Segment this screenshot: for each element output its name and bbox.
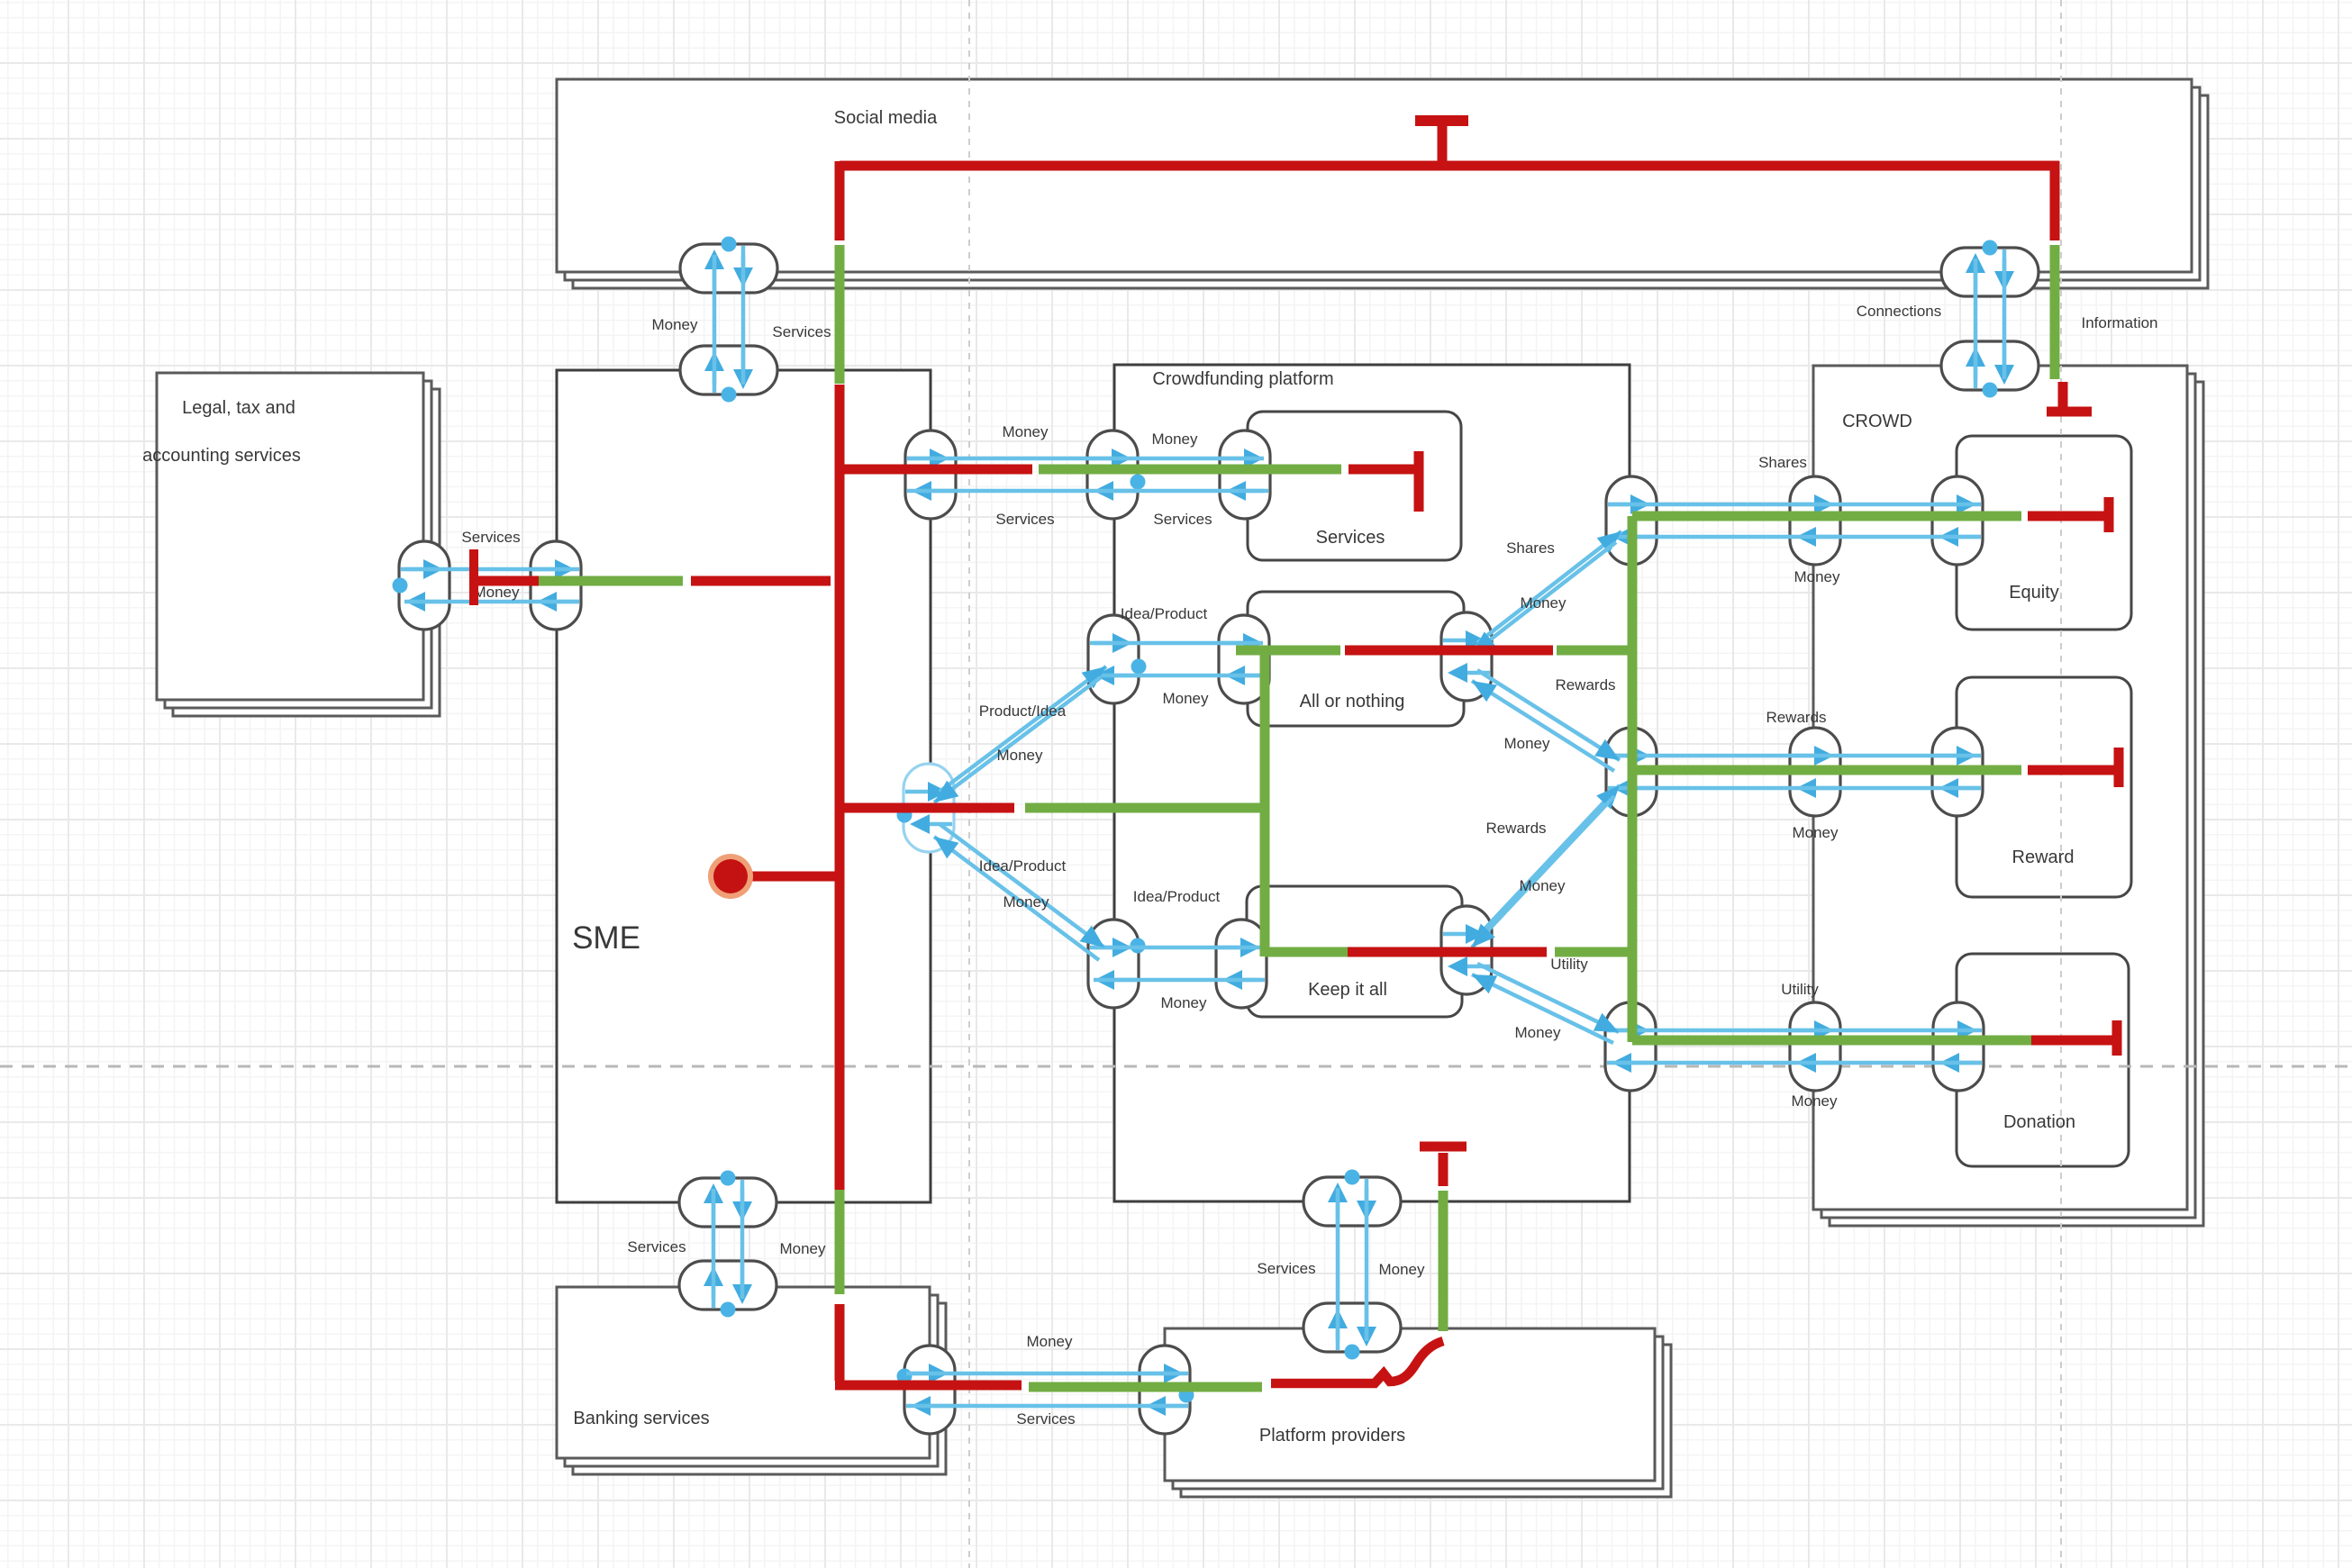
red dot halo bbox=[708, 854, 753, 899]
utility row top flow line bbox=[1607, 1029, 1982, 1033]
utility diag arrowhead bbox=[1594, 1013, 1619, 1032]
svg-text:Product/Idea: Product/Idea bbox=[979, 702, 1067, 720]
svg-text:Money: Money bbox=[473, 584, 520, 601]
red hook to platform vertical bbox=[1271, 1341, 1443, 1383]
Social media container (stacked) bbox=[557, 79, 2208, 288]
svg-text:Money: Money bbox=[1519, 877, 1566, 894]
green flow banking to platform green bbox=[1029, 1382, 1262, 1392]
red flow corner to banking valve bbox=[835, 1381, 1022, 1391]
red flow SME vertical main bbox=[835, 385, 845, 1190]
banking valve port dot bbox=[721, 1302, 736, 1318]
svg-text:Money: Money bbox=[1162, 690, 1209, 707]
services row1 bottom flow line bbox=[907, 489, 1264, 494]
shares valve bbox=[1606, 476, 1657, 565]
svg-text:Platform providers: Platform providers bbox=[1259, 1426, 1405, 1446]
services box valve bbox=[1220, 431, 1270, 519]
svg-text:Information: Information bbox=[2081, 314, 2157, 331]
SME container bbox=[557, 370, 931, 1202]
green flow utility row green bbox=[1632, 1036, 2031, 1046]
svg-text:Money: Money bbox=[1791, 1092, 1838, 1110]
green flow vertical green 2 bbox=[1260, 646, 1270, 956]
red flow information red stub bbox=[2058, 382, 2068, 407]
All or nothing rounded box bbox=[1248, 592, 1464, 726]
green flow row1 money green bbox=[1039, 465, 1341, 475]
svg-text:Equity: Equity bbox=[2009, 583, 2059, 603]
Donation rounded box bbox=[1957, 954, 2129, 1166]
svg-text:Shares: Shares bbox=[1506, 539, 1555, 557]
Crowdfunding platform container bbox=[1114, 365, 1630, 1201]
svg-text:SME: SME bbox=[572, 920, 640, 956]
svg-text:Rewards: Rewards bbox=[1766, 709, 1826, 726]
svg-text:Money: Money bbox=[651, 316, 698, 333]
SME mid valve port dot bbox=[897, 808, 913, 823]
social media bottom valve bbox=[680, 244, 777, 293]
cf bottom valve port dot bbox=[1345, 1170, 1360, 1185]
rewards diag from aon flow line bbox=[1477, 670, 1620, 760]
platform left valve port dot bbox=[1179, 1388, 1194, 1403]
money utility row flow line bbox=[1607, 1061, 1982, 1065]
svg-text:Donation: Donation bbox=[2003, 1112, 2075, 1132]
shares diag arrowhead bbox=[1597, 531, 1621, 554]
green flow row2 green left bbox=[1236, 646, 1340, 656]
green flow vertical green 1 bbox=[1628, 516, 1638, 1042]
svg-text:Services: Services bbox=[461, 529, 520, 546]
platform providers top valve bbox=[1303, 1303, 1401, 1352]
rewards valve bbox=[1606, 728, 1657, 816]
CROWD top valve bbox=[1941, 341, 2039, 390]
svg-text:CROWD: CROWD bbox=[1842, 412, 1912, 431]
svg-text:Rewards: Rewards bbox=[1485, 820, 1546, 837]
crowdfunding left row3 valve bbox=[1088, 920, 1139, 1008]
dashed vertical guide right bbox=[2060, 0, 2062, 1568]
red flow row2 red bbox=[1345, 646, 1553, 656]
money utility diag return flow line bbox=[1472, 974, 1613, 1043]
red flow shares row red bbox=[2028, 512, 2104, 521]
shares diag flow line bbox=[1477, 531, 1621, 643]
svg-text:Keep it all: Keep it all bbox=[1308, 980, 1387, 1000]
idea-product row3 flow line bbox=[1094, 946, 1260, 950]
svg-text:accounting services: accounting services bbox=[142, 446, 301, 466]
red flow row2.5 from SME bbox=[843, 803, 1014, 813]
legal right valve bbox=[399, 541, 450, 630]
money diag down return flow line bbox=[934, 837, 1099, 960]
crowdfunding left row1 valve bbox=[1087, 431, 1138, 519]
rewards diag from keep arrowhead bbox=[1596, 785, 1620, 810]
Banking services container (stacked) bbox=[557, 1287, 946, 1474]
money keep diag return flow line bbox=[1472, 796, 1614, 947]
donation box valve bbox=[1933, 1002, 1984, 1091]
rewards row top flow line bbox=[1608, 754, 1981, 758]
red flow red dot stub bbox=[751, 872, 844, 882]
green flow platform vertical green bbox=[1439, 1191, 1448, 1331]
money shares row flow line bbox=[1608, 535, 1981, 539]
money diag up return arrowhead bbox=[934, 781, 958, 802]
svg-text:Services: Services bbox=[1257, 1260, 1315, 1277]
SME left valve bbox=[531, 541, 581, 630]
red flow right vertical upper bbox=[2050, 161, 2060, 240]
money shares diag return arrowhead bbox=[1472, 631, 1496, 654]
red flow row1 from SME bbox=[840, 465, 1032, 475]
red flow rewards row red bbox=[2028, 766, 2114, 775]
all or nothing left valve bbox=[1219, 615, 1269, 703]
svg-text:All or nothing: All or nothing bbox=[1300, 692, 1405, 711]
money legal row flow line bbox=[404, 600, 579, 604]
money keep diag return arrowhead bbox=[1472, 924, 1495, 948]
green flow rewards row green bbox=[1632, 766, 2021, 775]
information pair down flow line bbox=[2002, 258, 2007, 379]
cf row1 valve port dot bbox=[1131, 475, 1146, 490]
svg-text:Services: Services bbox=[1316, 528, 1385, 548]
svg-text:Idea/Product: Idea/Product bbox=[1121, 605, 1208, 622]
red flow platform vertical cap bbox=[1420, 1142, 1467, 1152]
product-idea diag up arrowhead bbox=[1082, 666, 1106, 688]
cf row2 valve port dot bbox=[1131, 659, 1147, 675]
money diag down return arrowhead bbox=[934, 837, 958, 858]
utility valve bbox=[1605, 1002, 1656, 1091]
keep it all right valve bbox=[1441, 906, 1492, 994]
svg-text:Money: Money bbox=[1026, 1333, 1073, 1350]
money shares diag return flow line bbox=[1472, 542, 1616, 654]
svg-text:Money: Money bbox=[1002, 423, 1049, 440]
red flow row3 red bbox=[1348, 947, 1547, 957]
rewards diag from keep flow line bbox=[1477, 785, 1620, 937]
svg-text:Money: Money bbox=[1794, 568, 1840, 585]
svg-text:Money: Money bbox=[1151, 431, 1198, 448]
SME top valve port dot bbox=[722, 387, 737, 403]
red flow SME vertical lower bbox=[835, 1304, 845, 1381]
keep it all left valve bbox=[1216, 920, 1267, 1008]
green flow row3 green right bbox=[1555, 947, 1633, 957]
svg-text:Services: Services bbox=[627, 1238, 686, 1255]
SME top valve bbox=[680, 346, 777, 394]
idea-product diag down flow line bbox=[940, 824, 1104, 947]
red flow top T-bar stub bbox=[1438, 121, 1448, 166]
svg-text:Money: Money bbox=[1520, 594, 1566, 612]
svg-text:Money: Money bbox=[1003, 893, 1049, 911]
red flow row1 end cap bbox=[1414, 451, 1424, 512]
CROWD rewards valve bbox=[1790, 728, 1840, 816]
money row3 flow line bbox=[1094, 978, 1260, 983]
svg-text:Money: Money bbox=[1514, 1024, 1561, 1041]
idea-product row2 flow line bbox=[1094, 641, 1263, 646]
social media valve port dot bbox=[722, 237, 737, 252]
red flow left vertical upper bbox=[835, 161, 845, 240]
money utility diag return arrowhead bbox=[1472, 974, 1497, 993]
services social pair down flow line bbox=[741, 255, 746, 385]
money cf-pp pair flow line bbox=[1365, 1188, 1369, 1341]
reward box valve bbox=[1932, 728, 1983, 816]
red flow legal row red right bbox=[691, 576, 831, 586]
svg-text:Idea/Product: Idea/Product bbox=[1133, 888, 1221, 905]
banking top valve bbox=[679, 1261, 776, 1310]
connections valve port dot bbox=[1983, 240, 1998, 256]
red flow shares row cap bbox=[2104, 497, 2114, 532]
svg-text:Services: Services bbox=[1016, 1410, 1075, 1428]
svg-text:Services: Services bbox=[995, 511, 1054, 528]
green flow legal row green bbox=[539, 576, 683, 586]
SME right row1 valve bbox=[905, 431, 956, 519]
svg-text:Utility: Utility bbox=[1550, 956, 1588, 973]
red flow legal row cap bbox=[469, 549, 478, 605]
Platform providers container (stacked) bbox=[1165, 1328, 1671, 1497]
money rewards diag return flow line bbox=[1472, 681, 1614, 771]
svg-text:Social media: Social media bbox=[834, 108, 938, 128]
red flow utility row red bbox=[2031, 1036, 2112, 1046]
Keep it all rounded box bbox=[1247, 886, 1462, 1017]
social media connections valve bbox=[1941, 248, 2039, 296]
red flow rewards row cap bbox=[2114, 748, 2124, 787]
SME bottom valve bbox=[679, 1178, 776, 1227]
svg-text:Money: Money bbox=[1160, 994, 1207, 1011]
svg-text:Shares: Shares bbox=[1758, 454, 1807, 471]
banking right valve bbox=[904, 1346, 955, 1434]
Reward rounded box bbox=[1957, 677, 2131, 897]
Services rounded box bbox=[1248, 412, 1461, 560]
services cf-pp pair flow line bbox=[1336, 1188, 1340, 1341]
cf row3 valve port dot bbox=[1131, 938, 1146, 954]
green flow SME bottom vertical bbox=[835, 1190, 845, 1294]
svg-text:Money: Money bbox=[1378, 1261, 1425, 1278]
crowdfunding left row2 valve bbox=[1088, 615, 1139, 703]
money row1 top flow line bbox=[907, 457, 1264, 461]
svg-text:Services: Services bbox=[772, 323, 831, 340]
equity box valve bbox=[1932, 476, 1983, 565]
red flow social media top horizontal bbox=[840, 161, 2059, 171]
svg-text:Legal, tax and: Legal, tax and bbox=[182, 398, 295, 418]
svg-text:Money: Money bbox=[1792, 824, 1839, 841]
red flow legal row red left bbox=[478, 576, 539, 586]
money diag up return flow line bbox=[934, 677, 1101, 802]
Equity rounded box bbox=[1957, 436, 2131, 630]
banking right valve port dot bbox=[897, 1369, 913, 1384]
money sme-bank pair flow line bbox=[740, 1189, 745, 1299]
red flow row1 into services bbox=[1349, 465, 1414, 475]
money row2 flow line bbox=[1094, 674, 1263, 678]
CROWD container (stacked) bbox=[1813, 366, 2203, 1226]
red flow platform vertical red bbox=[1439, 1153, 1448, 1186]
svg-text:Connections: Connections bbox=[1857, 303, 1942, 320]
svg-text:Banking services: Banking services bbox=[573, 1409, 709, 1428]
svg-text:Money: Money bbox=[779, 1240, 826, 1257]
svg-text:Utility: Utility bbox=[1781, 981, 1819, 998]
idea-product diag down arrowhead bbox=[1080, 926, 1104, 947]
services legal row flow line bbox=[404, 567, 579, 572]
red dot bbox=[713, 859, 748, 893]
Legal tax accounting services container (stacked) bbox=[157, 373, 440, 716]
SME right row2 (selected) valve bbox=[904, 764, 954, 852]
product-idea diag up flow line bbox=[940, 666, 1106, 792]
money social pair up flow line bbox=[713, 255, 717, 385]
SME bottom valve port dot bbox=[721, 1171, 736, 1186]
shares row top flow line bbox=[1608, 503, 1981, 507]
CROWD top valve port dot bbox=[1983, 383, 1998, 398]
svg-text:Services: Services bbox=[1153, 511, 1212, 528]
services bottom row flow line bbox=[906, 1404, 1188, 1409]
green flow row2 green right bbox=[1557, 646, 1633, 656]
platform providers left valve bbox=[1140, 1346, 1190, 1434]
utility diag flow line bbox=[1477, 964, 1619, 1032]
svg-text:Idea/Product: Idea/Product bbox=[979, 857, 1067, 875]
connections pair up flow line bbox=[1974, 258, 1978, 379]
red flow top T-bar cap bbox=[1415, 115, 1468, 126]
svg-text:Rewards: Rewards bbox=[1555, 676, 1615, 693]
dashed vertical guide left bbox=[968, 0, 970, 1568]
dashed horizontal guide bbox=[0, 1065, 2352, 1068]
all or nothing right valve bbox=[1441, 612, 1492, 701]
legal valve port dot bbox=[393, 578, 408, 594]
svg-text:Money: Money bbox=[996, 747, 1043, 764]
CROWD utility valve bbox=[1790, 1002, 1840, 1091]
green flow services into SME bbox=[835, 245, 845, 384]
green flow information green bbox=[2050, 245, 2060, 379]
green flow row3 green left bbox=[1265, 947, 1348, 957]
red flow information cap bbox=[2047, 407, 2092, 417]
crowdfunding bottom valve bbox=[1303, 1177, 1401, 1226]
red flow utility row cap bbox=[2112, 1020, 2122, 1056]
services sme-bank pair flow line bbox=[712, 1189, 716, 1299]
rewards diag from aon arrowhead bbox=[1594, 739, 1620, 760]
svg-text:Money: Money bbox=[1503, 735, 1550, 752]
money rewards row flow line bbox=[1608, 786, 1981, 791]
money bottom row flow line bbox=[906, 1372, 1188, 1376]
green flow row2.5 green bbox=[1025, 803, 1269, 813]
money rewards diag return arrowhead bbox=[1472, 681, 1497, 702]
CROWD shares valve bbox=[1790, 476, 1840, 565]
svg-text:Reward: Reward bbox=[2012, 847, 2075, 867]
green flow shares row green bbox=[1632, 512, 2021, 521]
svg-text:Crowdfunding platform: Crowdfunding platform bbox=[1152, 369, 1333, 389]
platform top valve port dot bbox=[1345, 1345, 1360, 1360]
